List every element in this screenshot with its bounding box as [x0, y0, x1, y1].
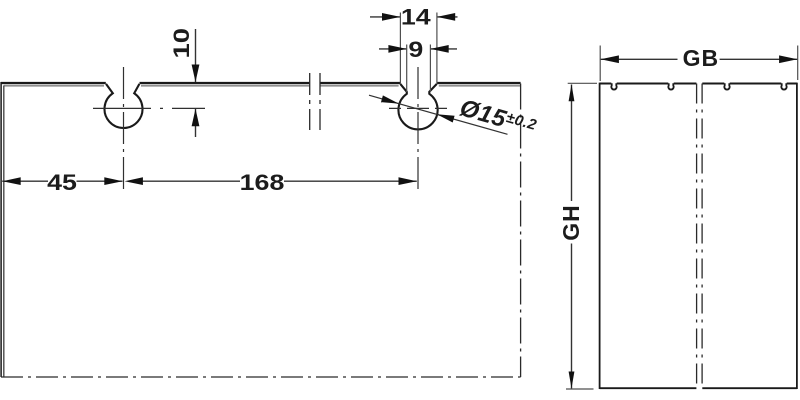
svg-text:GH: GH [558, 204, 584, 241]
right view left edge [599, 83, 601, 389]
dim GH bottom arrow [569, 372, 575, 389]
notch 2 [668, 83, 673, 89]
dim 14 extension lines [400, 13, 437, 84]
dim 14 right arrow [437, 13, 455, 21]
right view outline: top edge [600, 83, 797, 85]
notch 4 [781, 83, 786, 89]
dim GH line [571, 85, 573, 389]
dim 9 extension lines [407, 45, 431, 93]
dim 45 left arrow [2, 177, 20, 185]
notch 3 [724, 83, 729, 89]
diameter arrow upper-left [381, 95, 399, 103]
svg-text:9: 9 [408, 38, 423, 63]
keyhole cutout 2 [398, 84, 437, 130]
glass panel right break edge (chain) [520, 84, 522, 378]
dim 10 upper arrow [192, 65, 200, 83]
dim GH top arrow [569, 84, 575, 101]
dim 45 right arrow [104, 177, 122, 185]
svg-text:GB: GB [683, 45, 720, 71]
notch 1 [611, 83, 616, 89]
dim GH top extension line [568, 82, 597, 84]
dim 10 upper line [195, 29, 197, 82]
svg-text:10: 10 [169, 28, 194, 59]
dim 10 lower line [195, 109, 197, 137]
dim GH bottom extension line [566, 388, 594, 390]
glass panel top edge (black) [1, 82, 521, 84]
hole 2 horizontal centerline [389, 107, 447, 109]
diameter arrow lower-right [437, 114, 455, 122]
break symbol line left [309, 73, 311, 130]
glass panel left edge (outer line) [0, 82, 2, 377]
dim 45 line [2, 180, 122, 182]
dim 9 right arrow [430, 45, 448, 53]
dim 9 left arrow [388, 45, 406, 53]
dim 14 lines [370, 16, 458, 18]
right view right edge [796, 83, 798, 389]
svg-text:168: 168 [240, 171, 285, 196]
svg-text:45: 45 [47, 171, 77, 196]
hole 1 vertical centerline [123, 67, 125, 190]
svg-text:14: 14 [401, 5, 431, 30]
dim 168 line [140, 180, 417, 182]
right view bottom edge [600, 387, 797, 389]
glass panel bottom break line (chain) [1, 376, 521, 378]
panel joint chain line right [701, 84, 703, 389]
dim 14 left arrow [382, 13, 400, 21]
diameter leader line [369, 95, 508, 134]
keyhole cutout 1 [105, 84, 143, 128]
dim GB line [601, 58, 798, 60]
dim 168 right arrow [399, 177, 417, 185]
dim 10 lower arrow [192, 109, 200, 127]
dim GB right arrow [779, 55, 797, 63]
panel joint chain line left [696, 84, 698, 389]
hole 1 horizontal centerline [93, 107, 205, 109]
glass panel left edge (inner line) [3, 86, 5, 378]
dim GB extension lines [600, 46, 798, 82]
break symbol line right [319, 73, 321, 130]
dim 9 lines [379, 48, 457, 50]
glass panel top edge shadow (gray) [4, 85, 521, 87]
dim GB left arrow [601, 55, 619, 63]
dim 168 left arrow [125, 177, 143, 185]
hole 2 vertical centerline [417, 67, 419, 190]
